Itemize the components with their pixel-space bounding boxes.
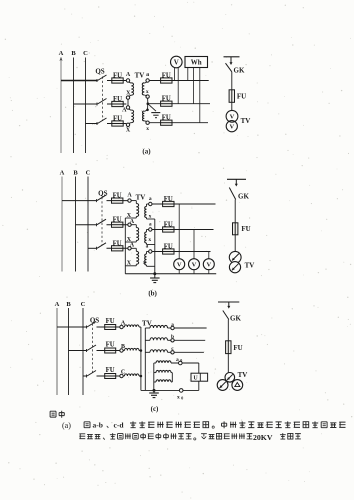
TV (a) primary terminal X2	[129, 122, 132, 125]
voltage transformer TV aux (a)	[226, 110, 238, 122]
svg-text:(a): (a)	[62, 421, 71, 430]
wire line b (c)	[174, 339, 205, 341]
svg-text:A: A	[59, 50, 64, 57]
disconnector QS (c) pole 1	[86, 326, 88, 329]
TV (c) secondary star winding b	[145, 339, 150, 341]
TV (c) open-delta winding 2	[154, 372, 156, 374]
svg-text:V: V	[177, 262, 182, 269]
voltmeter V3 (b)	[208, 252, 210, 259]
TV (a) primary winding 2	[129, 109, 132, 110]
wire phase A to QS (b)	[62, 200, 97, 202]
disconnector QS (c) pole 2	[86, 349, 88, 352]
voltmeter V leads (a)	[174, 68, 176, 81]
svg-text:V: V	[230, 114, 235, 121]
disconnector QS (b) pole 2	[96, 223, 98, 226]
voltmeter V (a)	[171, 56, 183, 68]
svg-text:FU: FU	[233, 344, 242, 352]
caption heading 图中	[50, 411, 56, 417]
wire GK to FU (b)	[234, 200, 236, 223]
svg-text:0: 0	[181, 396, 183, 401]
disconnector QS (b) pole 3	[96, 247, 98, 250]
open-delta left wire (c)	[153, 363, 155, 390]
wire line a (c)	[174, 327, 206, 329]
switch GK (b)	[235, 179, 237, 184]
terminal x0 (c)	[179, 389, 183, 393]
open-delta right link (c)	[171, 373, 173, 382]
TV (c) open-delta winding 3	[154, 381, 156, 383]
svg-text:A: A	[126, 72, 131, 78]
disconnector QS (a) pole 1	[96, 79, 98, 82]
svg-text:GK: GK	[230, 314, 241, 322]
disconnector QS (c) pole 3	[86, 375, 88, 378]
svg-text:A: A	[60, 170, 65, 177]
wire phase B to QS (b)	[76, 224, 97, 226]
wire FU to TV (a)	[231, 102, 233, 110]
wire GK to FU (c)	[227, 320, 229, 341]
svg-text:V: V	[206, 262, 211, 269]
svg-text:QS: QS	[98, 190, 107, 198]
TV (a) secondary terminal x2	[144, 120, 147, 123]
fuse FU aux (c)	[226, 341, 231, 354]
wire phase B to QS (c)	[69, 350, 87, 352]
aux branch top wire (a)	[224, 56, 240, 58]
svg-text:x: x	[148, 237, 151, 243]
svg-text:a-b: a-b	[93, 421, 103, 430]
svg-text:V: V	[192, 262, 197, 269]
TV (b) secondary winding 2	[147, 229, 149, 231]
svg-text:QS: QS	[95, 68, 104, 76]
ground (c)	[153, 390, 155, 393]
svg-text:Wh: Wh	[191, 59, 202, 67]
TV (c) secondary star winding a	[145, 327, 150, 329]
svg-text:A: A	[127, 193, 132, 199]
TV (b) primary winding 3	[131, 247, 136, 249]
wire a0 to voltmeter U (c)	[198, 363, 200, 373]
wire phase C to QS (a)	[86, 123, 98, 125]
secondary star neutral wire (c)	[144, 328, 146, 390]
fuse FU aux (a)	[229, 90, 234, 103]
wire x1 to node (a)	[147, 98, 149, 102]
wire line c (c)	[174, 351, 204, 353]
ground junction (c)	[153, 389, 156, 392]
wire phase B to QS (a)	[74, 103, 98, 105]
svg-text:FU: FU	[241, 225, 250, 233]
svg-text:a: a	[146, 72, 149, 78]
svg-text:U: U	[193, 376, 198, 382]
svg-text:TV: TV	[135, 72, 145, 80]
svg-text:x: x	[143, 260, 146, 266]
aux branch top wire (c)	[218, 301, 239, 303]
switch GK (c)	[228, 302, 230, 307]
svg-text:C: C	[83, 50, 88, 57]
svg-text:(c): (c)	[151, 405, 159, 413]
svg-text:TV: TV	[241, 117, 251, 125]
wire phase A to QS (c)	[57, 326, 87, 328]
svg-text:a: a	[149, 222, 152, 228]
svg-text:V: V	[174, 59, 179, 67]
svg-text:a: a	[146, 244, 149, 250]
QS linkage dashed (b)	[101, 197, 103, 246]
svg-text:B: B	[71, 50, 76, 57]
ground (a)	[149, 104, 157, 111]
QS linkage dashed (c)	[92, 324, 94, 374]
energy meter Wh leads (a)	[187, 68, 189, 81]
svg-text:B: B	[73, 170, 78, 177]
ground (b)	[154, 274, 156, 278]
svg-text:20KV: 20KV	[253, 433, 273, 442]
svg-text:x: x	[177, 395, 180, 401]
voltage transformer TV aux (b)	[229, 251, 241, 263]
disconnector QS (a) pole 2	[96, 103, 98, 106]
voltmeter bottom leads (b)	[178, 270, 180, 274]
svg-text:x: x	[146, 126, 149, 132]
svg-text:QS: QS	[90, 317, 99, 325]
wire phase A to QS (a)	[61, 80, 97, 82]
svg-text:x: x	[146, 89, 149, 95]
TV (c) primary winding C	[123, 375, 124, 377]
disconnector QS (b) pole 1	[96, 199, 98, 202]
svg-text:C: C	[86, 170, 91, 177]
voltage transformer TV aux (c)	[225, 373, 235, 383]
bottom wire (c)	[141, 389, 199, 391]
svg-text:C: C	[81, 301, 86, 308]
primary neutral junction B (c)	[140, 349, 143, 352]
switch GK (a)	[230, 57, 232, 63]
TV (c) secondary star winding c	[145, 351, 150, 353]
voltmeter V2 (b)	[193, 230, 195, 259]
wire phase C to QS (b)	[88, 247, 97, 249]
svg-text:GK: GK	[238, 193, 249, 201]
svg-text:X: X	[126, 128, 131, 134]
fuse FU aux (b)	[233, 223, 238, 235]
svg-text:TV: TV	[245, 261, 255, 269]
primary neutral wire (c)	[140, 327, 142, 390]
svg-text:(a): (a)	[142, 148, 151, 156]
aux branch top wire (b)	[227, 178, 246, 180]
svg-text:TV: TV	[136, 194, 146, 202]
TV (a) secondary terminal a2 dot	[147, 104, 149, 110]
svg-text:TV: TV	[238, 371, 248, 379]
wire FU to TV (c)	[227, 354, 229, 373]
TV (a) secondary winding 1	[144, 82, 147, 83]
wire phase C to QS (c)	[83, 375, 87, 377]
voltmeter U (c)	[191, 373, 208, 381]
svg-text:a: a	[149, 196, 152, 202]
voltmeter V1 (b)	[178, 204, 180, 259]
wire voltmeter U to bottom (c)	[198, 381, 200, 390]
svg-text:A: A	[122, 107, 127, 113]
TV (c) primary winding A	[123, 326, 124, 328]
TV (b) primary winding 2	[131, 224, 136, 226]
TV (b) secondary winding 1	[147, 203, 149, 205]
TV (b) primary winding 1	[131, 200, 136, 202]
primary neutral junction C (c)	[140, 375, 143, 378]
bottom common wire (b)	[125, 273, 216, 275]
primary neutral wire (b)	[124, 218, 126, 274]
svg-text:(b): (b)	[148, 290, 157, 298]
svg-text:FU: FU	[237, 92, 246, 100]
disconnector QS (a) pole 3	[96, 122, 98, 125]
junction node (a)	[147, 102, 150, 105]
svg-text:A: A	[55, 301, 60, 308]
wire X1-A2 (a)	[127, 99, 129, 106]
svg-text:V: V	[229, 124, 234, 131]
QS linkage dashed (a)	[102, 77, 104, 122]
svg-text:B: B	[66, 301, 71, 308]
wire GK to FU (a)	[231, 72, 233, 90]
TV (b) secondary winding 3	[147, 251, 149, 253]
svg-text:c-d: c-d	[114, 421, 125, 430]
TV (a) primary terminal A2	[126, 106, 129, 109]
energy meter Wh (a)	[185, 57, 208, 68]
caption line 2	[79, 434, 85, 439]
TV (c) open-delta winding 1	[154, 362, 156, 364]
secondary neutral wire (b)	[154, 219, 156, 274]
TV (a) primary winding 1	[129, 82, 132, 83]
svg-text:GK: GK	[234, 67, 245, 75]
TV (c) primary winding B	[123, 350, 124, 352]
wire FU to TV (b)	[234, 235, 236, 252]
ground junction (b)	[153, 272, 156, 275]
TV (a) secondary winding 2	[144, 110, 147, 112]
